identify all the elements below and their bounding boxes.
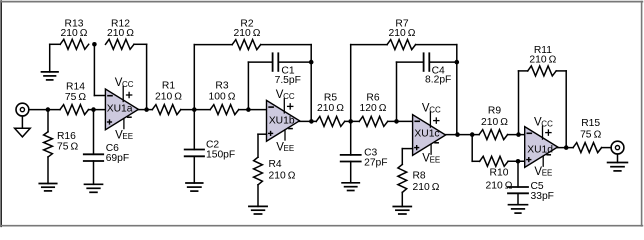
resistor R10 <box>480 156 509 166</box>
wire R16 top <box>47 110 49 132</box>
wire node E down to C2 <box>193 110 195 150</box>
op-amp XU1a <box>105 77 138 142</box>
wire R6 to XU1c <box>388 120 413 122</box>
svg-text:210 Ω: 210 Ω <box>529 55 556 66</box>
label C2 <box>206 140 235 161</box>
ground below C5 <box>509 205 528 213</box>
wire C4 to output node <box>429 61 457 63</box>
svg-text:EE: EE <box>430 156 441 165</box>
node L junction <box>455 132 460 137</box>
svg-text:33pF: 33pF <box>531 191 554 202</box>
svg-text:R1: R1 <box>162 81 175 92</box>
svg-text:R8: R8 <box>413 170 426 181</box>
wire XU1c output <box>446 134 480 136</box>
wire R16 bottom <box>47 157 49 184</box>
svg-text:210 Ω: 210 Ω <box>155 92 182 103</box>
wire C2 to ground <box>193 156 195 183</box>
svg-text:210 Ω: 210 Ω <box>486 181 513 192</box>
svg-text:75 Ω: 75 Ω <box>65 92 87 103</box>
svg-text:210 Ω: 210 Ω <box>389 28 416 39</box>
node M junction <box>470 132 475 137</box>
wire XU1d output <box>558 147 573 149</box>
wire node N up to R11 <box>519 71 528 135</box>
label R12 <box>107 19 134 40</box>
svg-text:120 Ω: 120 Ω <box>360 103 387 114</box>
svg-text:XU1d: XU1d <box>527 144 553 155</box>
ground below R4 <box>249 206 267 214</box>
node N junction <box>516 132 521 137</box>
node O junction <box>516 159 521 164</box>
svg-text:7.5pF: 7.5pF <box>275 75 301 86</box>
wire R8 to ground <box>401 192 403 206</box>
wire R2 to output node <box>261 45 312 122</box>
svg-text:CC: CC <box>283 92 295 101</box>
label R6 <box>360 93 387 115</box>
label R16 <box>57 131 79 152</box>
output connector J2 <box>611 141 624 154</box>
svg-text:R4: R4 <box>269 159 282 170</box>
label R4 <box>269 159 296 182</box>
label C3 <box>364 147 387 168</box>
svg-text:XU1c: XU1c <box>414 128 439 139</box>
wire R7 to output node <box>416 45 457 135</box>
label R13 <box>61 19 88 40</box>
svg-text:R14: R14 <box>66 82 85 93</box>
ground below C3 <box>342 183 359 191</box>
wire R11 to output node <box>556 71 566 148</box>
wire node C to inverting input <box>94 44 105 95</box>
label R3 <box>209 81 236 103</box>
op-amp XU1b <box>267 89 300 153</box>
capacitor C3 <box>341 155 361 162</box>
label R11 <box>529 45 556 66</box>
wire node I up to R7 <box>351 45 387 122</box>
resistor R16 <box>44 132 53 157</box>
wire input to node A <box>29 109 60 111</box>
wire R3 to XU1b <box>239 109 267 111</box>
svg-text:XU1a: XU1a <box>107 103 133 114</box>
svg-text:CC: CC <box>429 105 441 114</box>
resistor R1 <box>152 105 181 115</box>
svg-text:210 Ω: 210 Ω <box>107 28 134 39</box>
resistor R15 <box>573 143 602 153</box>
svg-text:XU1b: XU1b <box>269 116 295 127</box>
node K junction C4 output <box>455 60 460 65</box>
ground below output connector <box>608 163 628 171</box>
wire C3 to ground <box>350 162 352 183</box>
svg-text:210 Ω: 210 Ω <box>413 182 440 193</box>
wire XU1c plus input <box>402 149 412 165</box>
svg-text:CC: CC <box>122 80 134 89</box>
label R5 <box>317 93 344 115</box>
wire node I down to C3 <box>350 121 352 154</box>
resistor R14 <box>60 105 89 115</box>
svg-text:210 Ω: 210 Ω <box>234 28 261 39</box>
ground below R13 <box>42 72 59 80</box>
svg-text:150pF: 150pF <box>206 150 235 161</box>
svg-text:R5: R5 <box>324 93 337 104</box>
wire node M down to R10 <box>472 135 479 162</box>
input connector J1 <box>16 103 29 116</box>
resistor R6 <box>359 116 388 126</box>
wire XU1b plus input <box>258 134 267 157</box>
chassis ground under input connector <box>15 116 31 137</box>
op-amp XU1d <box>525 117 558 178</box>
node E junction <box>192 107 197 112</box>
wire output connector to ground <box>617 154 619 163</box>
label R14 <box>65 82 87 103</box>
resistor R3 <box>210 105 239 115</box>
ground below C2 <box>186 183 203 191</box>
svg-text:CC: CC <box>541 120 553 129</box>
svg-text:100 Ω: 100 Ω <box>209 92 236 103</box>
capacitor C6 <box>84 154 103 161</box>
svg-text:27pF: 27pF <box>364 158 387 169</box>
svg-text:R6: R6 <box>366 93 379 104</box>
node H junction XU1b output <box>309 119 314 124</box>
wire R14 to op-amp <box>89 109 106 111</box>
resistor R9 <box>479 130 508 140</box>
wire C1 to output node <box>278 61 311 63</box>
node B junction <box>91 107 96 112</box>
wire node E up to R2 <box>193 45 195 110</box>
svg-text:R15: R15 <box>581 118 600 129</box>
resistor R12 <box>106 39 135 49</box>
label R2 <box>234 19 261 40</box>
wire R12 to output node <box>134 44 147 109</box>
svg-text:69pF: 69pF <box>106 153 129 164</box>
wire C5 to ground <box>517 193 519 204</box>
node A junction <box>46 107 51 112</box>
resistor R11 <box>528 66 557 76</box>
node P junction XU1d output <box>564 145 569 150</box>
ground below C6 <box>85 184 103 192</box>
node C junction R13-R12 <box>92 42 97 47</box>
wire R9 to XU1d minus <box>508 134 525 136</box>
resistor R7 <box>387 40 416 50</box>
label R1 <box>155 81 182 103</box>
node J junction <box>394 119 399 124</box>
svg-text:R16: R16 <box>57 131 76 142</box>
wire XU1b output <box>300 120 317 122</box>
wire R1 to R3 <box>181 109 210 111</box>
resistor R4 <box>254 157 263 185</box>
resistor R8 <box>398 164 407 192</box>
svg-text:R9: R9 <box>488 106 501 117</box>
capacitor C1 <box>273 53 279 71</box>
wire node F up to C1 <box>247 62 249 110</box>
svg-text:8.2pF: 8.2pF <box>425 75 451 86</box>
svg-text:210 Ω: 210 Ω <box>481 117 508 128</box>
wire R15 to output connector <box>602 147 612 149</box>
svg-text:210 Ω: 210 Ω <box>317 103 344 114</box>
wire R10 to XU1d plus <box>508 160 525 162</box>
label R8 <box>413 170 440 192</box>
node D junction XU1a output <box>144 107 149 112</box>
wire R5 to R6 <box>345 120 360 122</box>
node I junction <box>348 119 353 124</box>
wire C6 to ground <box>93 161 95 184</box>
label R10 <box>486 168 513 192</box>
resistor R13 <box>60 39 88 49</box>
capacitor C2 <box>185 150 204 157</box>
resistor R5 <box>316 116 345 126</box>
svg-text:R3: R3 <box>215 81 228 92</box>
ground below R8 <box>393 207 411 215</box>
label R7 <box>389 19 416 40</box>
svg-text:R10: R10 <box>490 168 509 179</box>
node F junction <box>246 107 251 112</box>
wire to R2 <box>194 44 232 46</box>
ground below R16 <box>39 184 56 191</box>
wire node B down to C6 <box>93 110 95 155</box>
node G junction C1 output <box>309 60 314 65</box>
op-amp XU1c <box>413 102 446 164</box>
wire XU1a output <box>138 109 152 111</box>
svg-text:210 Ω: 210 Ω <box>61 28 88 39</box>
svg-text:75 Ω: 75 Ω <box>57 142 79 153</box>
label R15 <box>580 118 602 140</box>
capacitor C5 <box>508 187 528 193</box>
label R9 <box>481 106 508 128</box>
svg-text:EE: EE <box>122 132 133 141</box>
svg-text:EE: EE <box>542 169 553 178</box>
resistor R2 <box>232 40 261 50</box>
capacitor C4 <box>424 53 430 71</box>
svg-text:210 Ω: 210 Ω <box>269 171 296 182</box>
wire to C1 <box>248 61 272 63</box>
label C5 <box>531 181 554 202</box>
svg-text:75 Ω: 75 Ω <box>580 130 602 141</box>
wire node J up to C4 <box>397 62 424 121</box>
wire node O down to C5 <box>517 161 519 187</box>
label C6 <box>106 143 129 164</box>
svg-text:EE: EE <box>284 144 295 153</box>
wire R4 to ground <box>257 185 259 207</box>
wire R13 left to ground <box>50 44 61 72</box>
